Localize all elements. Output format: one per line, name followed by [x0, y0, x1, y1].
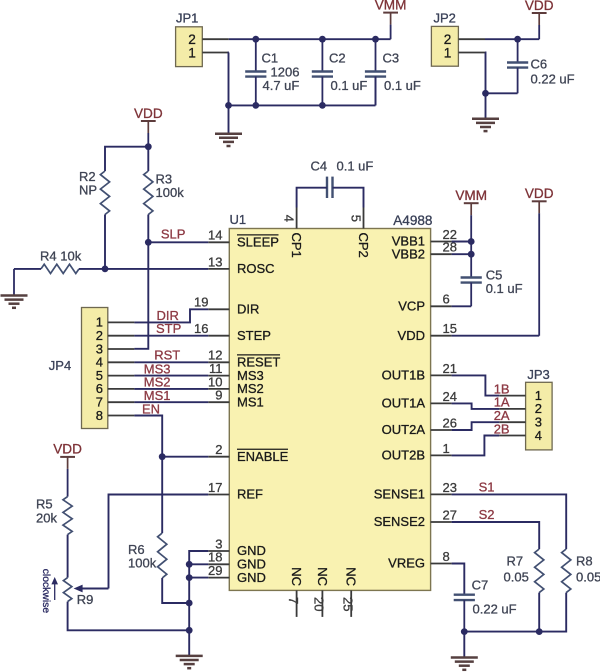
U1 pin 16 STEP [194, 321, 271, 343]
net label 2B [494, 421, 510, 436]
svg-text:ROSC: ROSC [237, 261, 275, 276]
C4 label [311, 159, 374, 174]
U1 reference designator [230, 212, 247, 227]
ground below U1 [176, 656, 203, 668]
capacitor C6 [507, 39, 528, 93]
svg-text:VCP: VCP [398, 299, 425, 314]
svg-text:0.05: 0.05 [576, 570, 600, 585]
svg-text:0.1 uF: 0.1 uF [486, 281, 523, 296]
net label DIR [157, 308, 179, 323]
svg-text:21: 21 [443, 361, 457, 376]
JP4 pin 3 [96, 341, 135, 356]
connector JP1 label [176, 11, 198, 26]
U1 pin 9 MS1 [208, 388, 263, 410]
svg-text:23: 23 [443, 480, 457, 495]
capacitor C2 [312, 39, 333, 105]
ground below JP1 [215, 134, 242, 146]
node GND29 [186, 574, 193, 581]
wire VBB2 net [452, 253, 472, 255]
capacitor C4 [297, 177, 364, 208]
node VBB2 junction [468, 251, 475, 258]
clockwise label [40, 569, 58, 614]
capacitor C3 [365, 39, 386, 105]
JP4 pin 6 [96, 381, 135, 396]
svg-text:EN: EN [142, 401, 160, 416]
U1 pin 10 MS2 [208, 374, 264, 396]
JP4 pin 5 [96, 368, 135, 383]
capacitor C7 [454, 595, 475, 632]
U1 pin 23 SENSE1 [374, 480, 457, 502]
svg-text:7: 7 [286, 597, 301, 604]
wire MS3 net [134, 375, 208, 377]
node SLP junction [145, 239, 152, 246]
C6 label [531, 56, 575, 86]
JP4 pin 2 [96, 328, 135, 343]
svg-text:15: 15 [443, 321, 457, 336]
svg-text:20: 20 [312, 597, 327, 611]
svg-text:VDD: VDD [53, 442, 82, 457]
U1 pin 7 NC [286, 567, 304, 617]
node C3 top [372, 36, 379, 43]
svg-text:VMM: VMM [455, 188, 487, 203]
net label EN [142, 401, 160, 416]
power symbol VDD (pin15) [525, 186, 554, 336]
net label MS2 [144, 375, 171, 390]
U1 pin 24 OUT1A [382, 389, 457, 411]
potentiometer R9 [63, 578, 71, 602]
R4 label [40, 248, 82, 263]
svg-text:4.7 uF: 4.7 uF [263, 78, 300, 93]
svg-text:R9: R9 [77, 592, 94, 607]
JP3 pin 2 [499, 401, 542, 416]
JP3 pin 1 [499, 388, 542, 403]
R7 label [504, 554, 529, 585]
svg-text:S2: S2 [479, 507, 495, 522]
svg-text:0.1 uF: 0.1 uF [384, 78, 421, 93]
wire REF net [109, 495, 209, 589]
net label S2 [479, 507, 495, 522]
net label STP [156, 321, 181, 336]
svg-text:1: 1 [444, 45, 452, 60]
U1 pin 15 VDD [398, 321, 457, 343]
U1 pin 14 SLEEP [208, 228, 279, 250]
svg-text:C2: C2 [329, 51, 346, 66]
U1 pin 4 CP1 [281, 208, 304, 258]
resistor R2 [100, 171, 109, 215]
wire VBB1 net [452, 241, 472, 243]
connector JP3 box [526, 382, 553, 450]
svg-text:8: 8 [96, 408, 103, 423]
wire VDD to R2 top [105, 147, 148, 171]
power symbol VMM (right) [455, 188, 487, 242]
JP2 pin 1 [444, 45, 485, 60]
C3 label [383, 51, 421, 93]
JP4 pin 1 [96, 315, 135, 330]
JP3 pin 3 [499, 415, 542, 430]
svg-text:ENABLE: ENABLE [237, 449, 289, 464]
svg-text:C3: C3 [383, 51, 400, 66]
wire GND pins vertical [189, 551, 208, 630]
connector JP2 box [431, 26, 458, 66]
svg-text:CP2: CP2 [356, 233, 371, 258]
svg-text:4: 4 [535, 428, 542, 443]
U1 pin 8 VREG [388, 549, 451, 571]
resistor R6 [158, 533, 167, 578]
U1 pin 13 ROSC [208, 254, 275, 276]
svg-text:1: 1 [443, 441, 450, 456]
svg-text:U1: U1 [230, 212, 247, 227]
wire OUT2B to JP3 pin4 [452, 436, 500, 456]
node C1 top [252, 36, 259, 43]
U1 pin 3 GND [208, 536, 266, 558]
svg-text:C4: C4 [311, 159, 328, 174]
U1 pin 21 OUT1B [382, 361, 457, 383]
svg-text:SENSE1: SENSE1 [374, 487, 425, 502]
svg-text:8: 8 [443, 549, 450, 564]
power symbol VMM (top) [375, 0, 407, 39]
svg-text:16: 16 [194, 321, 208, 336]
U1 pin 25 NC [340, 567, 358, 617]
node C1 bottom [252, 102, 259, 109]
wire RST net [134, 361, 208, 363]
node VDD split R2/R3 [145, 143, 152, 150]
node C2 bottom [319, 102, 326, 109]
svg-text:OUT2B: OUT2B [382, 448, 425, 463]
svg-text:STEP: STEP [237, 328, 271, 343]
U1 pin 17 REF [208, 480, 263, 502]
svg-text:DIR: DIR [237, 302, 259, 317]
resistor R8 [562, 549, 571, 593]
capacitor C1 [245, 39, 266, 105]
svg-text:RST: RST [154, 347, 180, 362]
svg-text:2B: 2B [494, 421, 510, 436]
wire GND pin18 [189, 563, 208, 565]
wire R2 bottom [104, 215, 106, 269]
wire R4 to ground [13, 269, 15, 296]
svg-text:VBB2: VBB2 [392, 246, 425, 261]
svg-text:19: 19 [194, 295, 208, 310]
U1 pin 28 VBB2 [392, 240, 457, 262]
svg-text:SLP: SLP [161, 226, 186, 241]
JP3 pin 4 [499, 428, 542, 443]
wire C5 bottom to VCP [452, 305, 472, 307]
JP4 pin 8 [96, 408, 135, 423]
wire MS2 net [134, 388, 208, 390]
node R6 gnd junction [186, 600, 193, 607]
wire VREG to C7 [452, 564, 465, 595]
C2 label [329, 51, 367, 93]
wire JP1 pin2 top rail [229, 38, 391, 40]
wire R9 bottom [68, 602, 190, 631]
node EN junction [159, 453, 166, 460]
U1 pin 18 GND [208, 550, 266, 572]
connector JP2 label [434, 11, 456, 26]
svg-text:MS1: MS1 [237, 394, 264, 409]
resistor R7 [535, 549, 544, 593]
power symbol VDD (R2/R3) [134, 106, 163, 147]
JP4 pin 7 [96, 395, 135, 410]
U1 pin 6 VCP [398, 292, 451, 314]
R3 label [156, 172, 185, 201]
ground below C7 [451, 658, 478, 670]
wire EN net [134, 416, 162, 457]
wire ROSC net [105, 268, 208, 270]
U1 value label A4988 [393, 213, 432, 228]
wire STP net [134, 335, 208, 337]
U1 pin 26 OUT2A [382, 415, 457, 437]
net label RST [154, 347, 180, 362]
svg-text:2: 2 [215, 442, 222, 457]
svg-text:100k: 100k [128, 556, 157, 571]
svg-text:R7: R7 [507, 554, 524, 569]
power symbol VDD (top right) [525, 0, 554, 39]
power symbol VDD (R5) [53, 442, 82, 497]
node rail-gnd junction [225, 102, 232, 109]
svg-text:VDD: VDD [525, 186, 554, 201]
svg-text:A4988: A4988 [393, 213, 432, 228]
wire gnd stem JP1 [228, 105, 230, 133]
net label 2A [494, 408, 510, 423]
connector JP1 box [176, 27, 203, 67]
svg-text:24: 24 [443, 389, 457, 404]
svg-text:26: 26 [443, 415, 457, 430]
U1 pin 2 ENABLE [208, 442, 288, 464]
ground below JP2 [472, 119, 499, 131]
svg-text:0.1 uF: 0.1 uF [331, 78, 368, 93]
wire OUT1A to JP3 pin2 [452, 403, 500, 409]
wire S1 net [452, 494, 567, 549]
svg-text:100k: 100k [156, 185, 185, 200]
svg-text:S1: S1 [479, 479, 495, 494]
node C2 top [319, 36, 326, 43]
U1 pin 20 NC [312, 567, 330, 617]
wire VDD to U1 pin15 [452, 335, 540, 337]
svg-text:27: 27 [443, 507, 457, 522]
svg-text:NC: NC [315, 567, 330, 586]
svg-text:1: 1 [188, 45, 196, 60]
wire GND pin29 [189, 577, 208, 579]
wire SLP to U1 pin14 [148, 241, 208, 243]
svg-text:C6: C6 [531, 56, 548, 71]
svg-text:SENSE2: SENSE2 [374, 514, 425, 529]
C1 label [262, 51, 300, 93]
U1 pin 19 DIR [194, 295, 259, 317]
svg-text:JP2: JP2 [434, 11, 456, 26]
net label SLP [161, 226, 186, 241]
wire R5 to R9 [67, 535, 69, 578]
svg-text:GND: GND [237, 570, 266, 585]
svg-text:OUT1B: OUT1B [382, 368, 425, 383]
node gnd rail junction [186, 627, 193, 634]
svg-text:17: 17 [208, 480, 222, 495]
wire JP2 pin1 down [484, 53, 487, 94]
JP1 pin 2 [188, 32, 229, 47]
wire DIR net [134, 309, 208, 322]
resistor R3 [144, 171, 153, 215]
R8 label [576, 554, 600, 585]
svg-text:13: 13 [208, 254, 222, 269]
node C7 gnd [461, 628, 468, 635]
connector JP4 label [49, 358, 71, 373]
svg-text:JP4: JP4 [49, 358, 71, 373]
svg-text:R8: R8 [576, 554, 593, 569]
connector JP4 box [82, 308, 108, 429]
U1 pin 22 VBB1 [392, 227, 457, 249]
R2 label [79, 169, 97, 198]
svg-text:STP: STP [156, 321, 181, 336]
wire R3 bottom to SLP node [147, 215, 149, 243]
U1 pin 5 CP2 [348, 208, 371, 258]
C5 label [486, 267, 523, 296]
net label S1 [479, 479, 495, 494]
svg-text:0.22 uF: 0.22 uF [531, 71, 575, 86]
wire JP2 pin2 to VDD [485, 38, 539, 40]
svg-text:0.22 uF: 0.22 uF [473, 602, 517, 617]
U1 pin 27 SENSE2 [374, 507, 457, 529]
R9 label [77, 592, 94, 607]
C7 label [472, 578, 517, 617]
wire bottom rail C1-C3 [229, 77, 376, 106]
net label MS1 [144, 388, 171, 403]
svg-text:14: 14 [208, 228, 222, 243]
svg-text:C1: C1 [262, 51, 279, 66]
svg-text:JP1: JP1 [176, 11, 198, 26]
ground left of R4 [1, 296, 28, 308]
svg-text:0.1 uF: 0.1 uF [337, 159, 374, 174]
svg-text:VDD: VDD [134, 106, 163, 121]
svg-text:5: 5 [348, 215, 363, 222]
R9 wiper arrow [74, 585, 109, 593]
svg-text:C7: C7 [472, 578, 489, 593]
svg-text:20k: 20k [36, 511, 57, 526]
wire MS1 net [134, 401, 208, 403]
svg-text:6: 6 [443, 292, 450, 307]
wire gnd stem C7 [463, 632, 465, 658]
JP1 pin 1 [188, 45, 229, 60]
JP4 pin 4 [96, 355, 135, 370]
svg-text:4: 4 [281, 215, 296, 222]
svg-text:9: 9 [215, 388, 222, 403]
wire R8 bottom rail [464, 593, 566, 632]
svg-text:clockwise: clockwise [40, 569, 51, 614]
wire OUT2A to JP3 pin3 [452, 422, 500, 430]
wire OUT1B to JP3 pin1 [452, 375, 500, 395]
wire SLP down to JP4 pin3 [134, 242, 148, 348]
wire EN to U1 pin2 [162, 456, 208, 458]
svg-text:NP: NP [79, 183, 97, 198]
svg-text:REF: REF [237, 487, 263, 502]
wire gnd stem U1 [188, 630, 190, 656]
svg-text:CP1: CP1 [289, 233, 304, 258]
svg-text:JP3: JP3 [527, 367, 549, 382]
wire R6 bottom [162, 578, 189, 603]
svg-text:OUT2A: OUT2A [382, 422, 426, 437]
svg-text:VDD: VDD [525, 0, 554, 13]
U1 pin 29 GND [208, 563, 266, 585]
wire JP1 pin1 to ground rail [228, 53, 230, 106]
wire C6 bottom to gnd node [486, 92, 518, 94]
wire EN to R6 top [161, 457, 163, 533]
node R7 gnd [536, 628, 543, 635]
resistor R4 [14, 264, 105, 273]
wire R7 bottom [538, 593, 540, 632]
net label 1A [494, 395, 510, 410]
svg-text:SLEEP: SLEEP [237, 235, 279, 250]
svg-text:VDD: VDD [398, 328, 425, 343]
node VBB1 junction [468, 238, 475, 245]
JP2 pin 2 [444, 32, 485, 47]
R6 label [128, 542, 157, 571]
svg-text:VREG: VREG [388, 556, 425, 571]
svg-text:25: 25 [340, 597, 355, 611]
node ROSC junction [102, 266, 109, 273]
svg-text:OUT1A: OUT1A [382, 396, 426, 411]
net label 1B [494, 381, 510, 396]
node C6 gnd junction [482, 90, 489, 97]
svg-text:29: 29 [208, 563, 222, 578]
wire gnd stem JP2 [485, 93, 487, 119]
svg-text:VMM: VMM [375, 0, 407, 12]
IC U1 body (A4988 stepper driver) [229, 229, 430, 591]
R5 label [36, 497, 57, 526]
svg-text:R5: R5 [36, 497, 53, 512]
U1 pin 1 OUT2B [382, 441, 452, 463]
node GND18 [186, 561, 193, 568]
connector JP3 label [527, 367, 549, 382]
wire VDD to R3 top [147, 147, 149, 171]
svg-text:R4 10k: R4 10k [40, 248, 82, 263]
svg-text:0.05: 0.05 [504, 570, 529, 585]
U1 pin 11 MS3 [208, 361, 263, 383]
capacitor C5 [461, 242, 482, 307]
U1 pin 12 RESET [208, 348, 280, 370]
resistor R5 [63, 497, 72, 535]
wire S2 net [452, 522, 540, 549]
svg-text:NC: NC [344, 567, 359, 586]
svg-text:NC: NC [289, 567, 304, 586]
net label MS3 [144, 361, 171, 376]
node C6 top [514, 36, 521, 43]
